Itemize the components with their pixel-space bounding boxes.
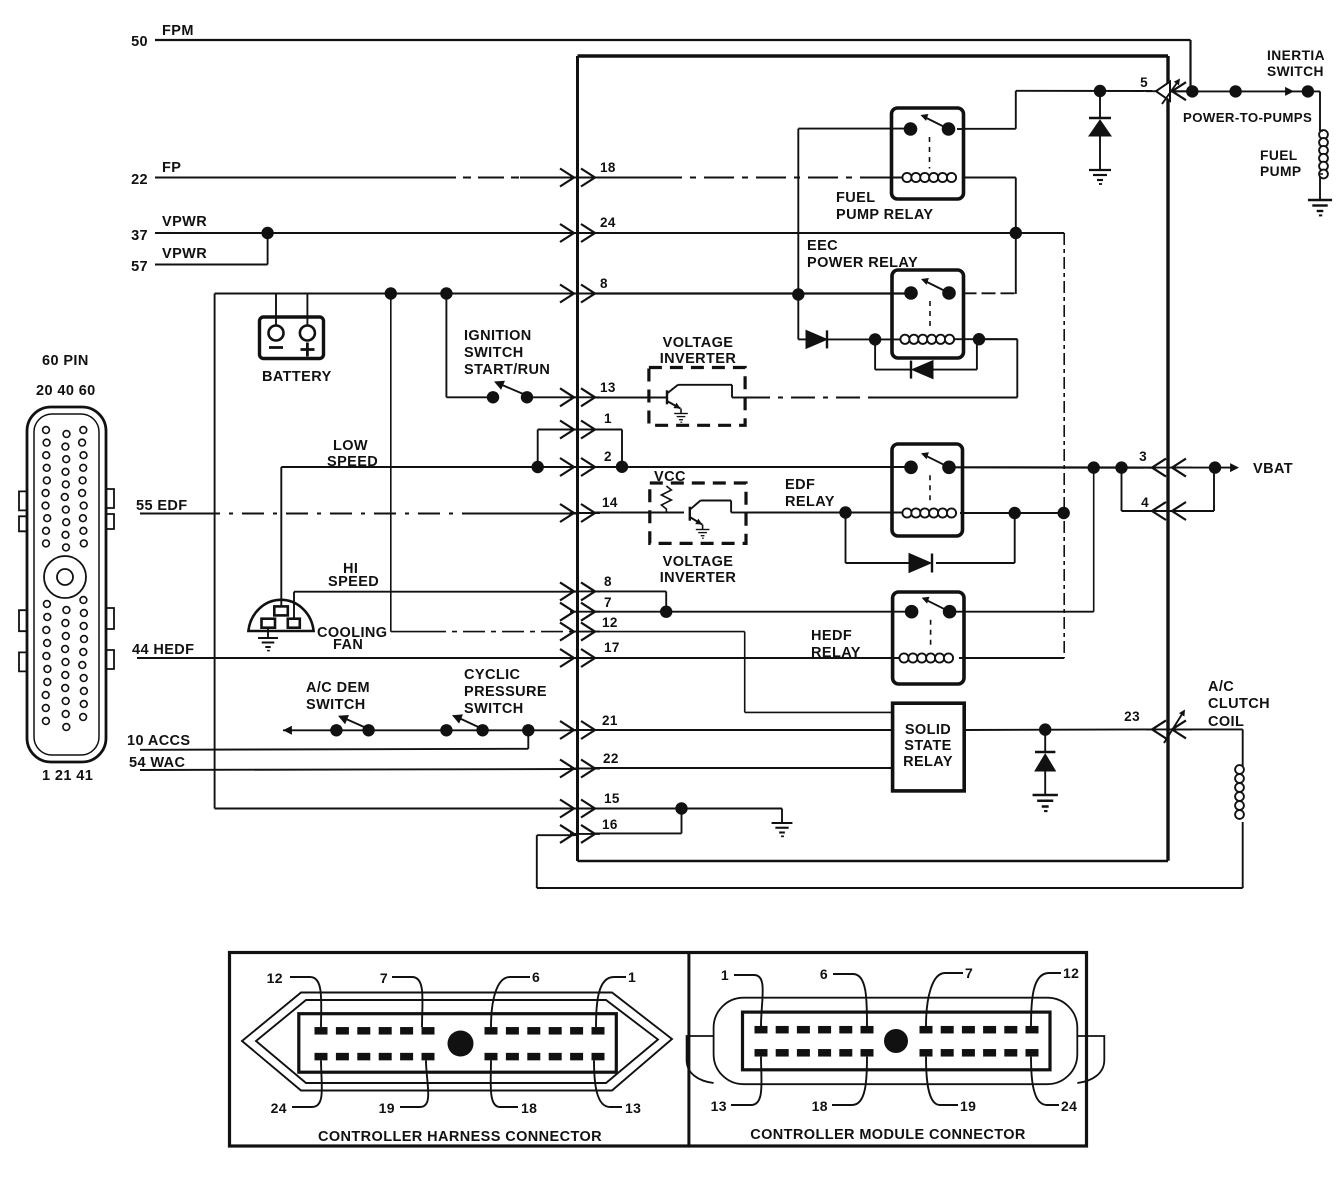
svg-text:19: 19 (960, 1098, 976, 1114)
svg-text:RELAY: RELAY (903, 754, 953, 770)
svg-text:CYCLIC: CYCLIC (464, 667, 521, 683)
svg-text:FUEL: FUEL (1260, 148, 1298, 163)
svg-text:18: 18 (521, 1100, 537, 1116)
svg-text:FAN: FAN (333, 637, 363, 653)
svg-text:13: 13 (711, 1098, 727, 1114)
svg-text:VOLTAGE: VOLTAGE (663, 554, 734, 570)
svg-text:24: 24 (1061, 1098, 1077, 1114)
svg-text:RELAY: RELAY (811, 645, 861, 661)
svg-text:50: 50 (131, 34, 148, 50)
svg-text:13: 13 (625, 1100, 641, 1116)
svg-text:1 21 41: 1 21 41 (42, 768, 93, 784)
svg-text:CONTROLLER MODULE CONNECTOR: CONTROLLER MODULE CONNECTOR (750, 1127, 1026, 1143)
svg-text:SWITCH: SWITCH (464, 701, 524, 717)
svg-text:54 WAC: 54 WAC (129, 755, 186, 771)
svg-text:EEC: EEC (807, 238, 838, 254)
svg-text:18: 18 (812, 1098, 828, 1114)
svg-text:CLUTCH: CLUTCH (1208, 696, 1270, 712)
svg-text:4: 4 (1141, 495, 1149, 510)
svg-text:HEDF: HEDF (811, 628, 852, 644)
svg-text:FP: FP (162, 160, 181, 176)
svg-text:37: 37 (131, 228, 148, 244)
svg-text:21: 21 (602, 713, 618, 728)
svg-text:7: 7 (380, 970, 388, 986)
svg-text:PUMP: PUMP (1260, 164, 1301, 179)
svg-text:SWITCH: SWITCH (464, 345, 524, 361)
svg-text:55 EDF: 55 EDF (136, 498, 188, 514)
svg-text:POWER RELAY: POWER RELAY (807, 255, 918, 271)
svg-text:STATE: STATE (904, 738, 951, 754)
svg-text:FUEL: FUEL (836, 190, 875, 206)
svg-text:10 ACCS: 10 ACCS (127, 733, 191, 749)
svg-text:LOW: LOW (333, 438, 368, 454)
svg-text:24: 24 (271, 1100, 287, 1116)
svg-text:VOLTAGE: VOLTAGE (663, 335, 734, 351)
svg-text:PUMP RELAY: PUMP RELAY (836, 207, 933, 223)
svg-text:VPWR: VPWR (162, 214, 207, 230)
svg-text:SPEED: SPEED (327, 454, 378, 470)
svg-text:8: 8 (604, 574, 612, 589)
svg-text:3: 3 (1139, 449, 1147, 464)
svg-text:22: 22 (603, 751, 619, 766)
svg-text:5: 5 (1140, 75, 1148, 90)
svg-text:SOLID: SOLID (905, 722, 951, 738)
svg-text:SWITCH: SWITCH (1267, 64, 1324, 79)
svg-text:12: 12 (1063, 965, 1079, 981)
svg-text:12: 12 (602, 615, 618, 630)
svg-text:INVERTER: INVERTER (660, 351, 737, 367)
svg-text:16: 16 (602, 817, 618, 832)
svg-text:1: 1 (721, 967, 729, 983)
svg-text:INERTIA: INERTIA (1267, 48, 1325, 63)
svg-text:8: 8 (600, 276, 608, 291)
svg-text:14: 14 (602, 495, 618, 510)
svg-text:7: 7 (965, 965, 973, 981)
svg-text:A/C: A/C (1208, 679, 1234, 695)
svg-text:INVERTER: INVERTER (660, 570, 737, 586)
svg-text:VBAT: VBAT (1253, 461, 1293, 477)
svg-text:44 HEDF: 44 HEDF (132, 642, 194, 658)
svg-text:VPWR: VPWR (162, 246, 207, 262)
svg-text:22: 22 (131, 172, 148, 188)
svg-text:23: 23 (1124, 709, 1140, 724)
svg-text:PRESSURE: PRESSURE (464, 684, 547, 700)
svg-text:START/RUN: START/RUN (464, 362, 550, 378)
svg-text:BATTERY: BATTERY (262, 369, 332, 385)
svg-text:6: 6 (820, 966, 828, 982)
svg-text:60 PIN: 60 PIN (42, 353, 89, 369)
svg-text:15: 15 (604, 791, 620, 806)
svg-text:RELAY: RELAY (785, 494, 835, 510)
svg-text:18: 18 (600, 160, 616, 175)
svg-text:7: 7 (604, 595, 612, 610)
svg-text:19: 19 (379, 1100, 395, 1116)
svg-text:CONTROLLER HARNESS CONNECTOR: CONTROLLER HARNESS CONNECTOR (318, 1129, 602, 1145)
svg-text:24: 24 (600, 215, 616, 230)
svg-text:COIL: COIL (1208, 714, 1244, 730)
svg-text:A/C DEM: A/C DEM (306, 680, 370, 696)
svg-text:FPM: FPM (162, 23, 194, 39)
svg-text:6: 6 (532, 969, 540, 985)
svg-text:POWER-TO-PUMPS: POWER-TO-PUMPS (1183, 110, 1312, 125)
svg-text:13: 13 (600, 380, 616, 395)
svg-text:1: 1 (604, 411, 612, 426)
svg-text:1: 1 (628, 969, 636, 985)
svg-text:20 40 60: 20 40 60 (36, 383, 96, 399)
svg-text:IGNITION: IGNITION (464, 328, 532, 344)
svg-text:17: 17 (604, 640, 620, 655)
svg-text:2: 2 (604, 449, 612, 464)
svg-text:SWITCH: SWITCH (306, 697, 366, 713)
svg-text:EDF: EDF (785, 477, 815, 493)
svg-text:VCC: VCC (654, 469, 686, 485)
svg-text:57: 57 (131, 259, 148, 275)
svg-text:SPEED: SPEED (328, 574, 379, 590)
svg-text:12: 12 (267, 970, 283, 986)
